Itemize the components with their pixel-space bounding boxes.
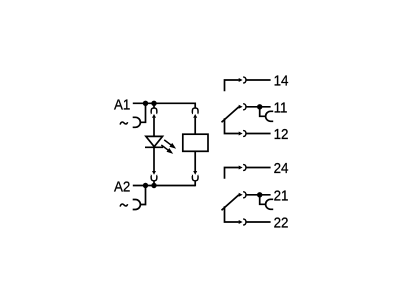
svg-text:14: 14 <box>274 73 289 90</box>
svg-text:A1: A1 <box>114 97 130 114</box>
svg-text:21: 21 <box>274 188 289 205</box>
svg-text:22: 22 <box>274 215 289 232</box>
svg-text:A2: A2 <box>114 179 130 196</box>
svg-text:12: 12 <box>274 126 289 143</box>
svg-text:11: 11 <box>274 100 288 117</box>
svg-text:24: 24 <box>274 160 289 177</box>
